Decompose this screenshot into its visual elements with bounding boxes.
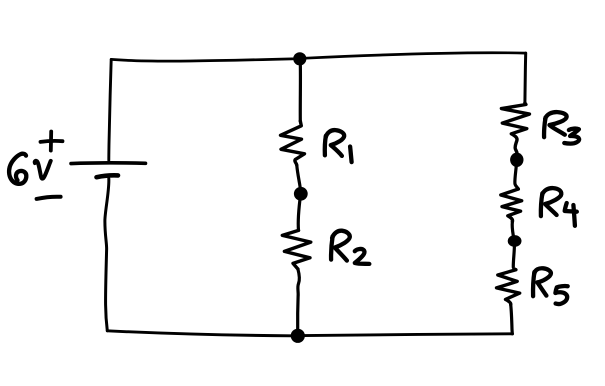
wire left vertical upper (top-left corner down to battery + plate) <box>109 59 111 160</box>
node middle junction dot (R1-R2) <box>294 187 308 201</box>
wire bottom-left segment (bottom-left corner to bottom junction) <box>107 331 292 336</box>
node bottom junction dot <box>291 329 305 343</box>
label + (battery positive) <box>41 132 63 151</box>
node junction dot R3-R4 <box>510 153 523 167</box>
resistor R1 <box>281 121 305 165</box>
node top junction dot <box>293 52 306 65</box>
label R5 <box>533 268 568 304</box>
wire middle lower (R2 down to bottom junction) <box>298 269 300 330</box>
wire middle (middle junction down to R2) <box>298 194 300 230</box>
resistor R2 <box>282 230 311 269</box>
resistor R5 <box>497 270 520 305</box>
wire middle vertical upper (top junction down to R1) <box>299 59 302 121</box>
wire top-right segment (top junction to top-right corner) <box>305 53 526 58</box>
wire right (R3-R4 junction down to R4) <box>515 160 518 189</box>
wire left vertical lower (battery - plate down to bottom-left corner) <box>105 179 109 331</box>
resistor R3 <box>501 103 529 153</box>
label R3 <box>544 112 579 144</box>
label 6 (of 6v) <box>9 154 26 184</box>
label R2 <box>331 231 369 264</box>
node junction dot R4-R5 <box>508 235 522 247</box>
label v (of 6v) <box>35 161 51 179</box>
wire right lower (R5 down to bottom-right corner) <box>511 305 513 334</box>
wire right vertical upper (top-right corner down to R3) <box>523 53 527 103</box>
wire top-left segment (node A to top junction) <box>111 59 294 61</box>
battery B1 positive plate (long) <box>71 161 146 165</box>
wire bottom-right segment (bottom junction to bottom-right corner) <box>304 334 513 336</box>
wire right (R4 down to R4-R5 junction) <box>512 222 514 238</box>
wire middle (R1 to middle junction) <box>297 165 301 190</box>
resistor R4 <box>501 189 522 222</box>
label R4 <box>541 188 577 226</box>
battery B1 negative plate (short) <box>97 175 119 177</box>
label - (battery negative) <box>37 197 61 199</box>
wire right (R4-R5 junction down to R5) <box>513 242 516 270</box>
label R1 <box>325 130 352 162</box>
